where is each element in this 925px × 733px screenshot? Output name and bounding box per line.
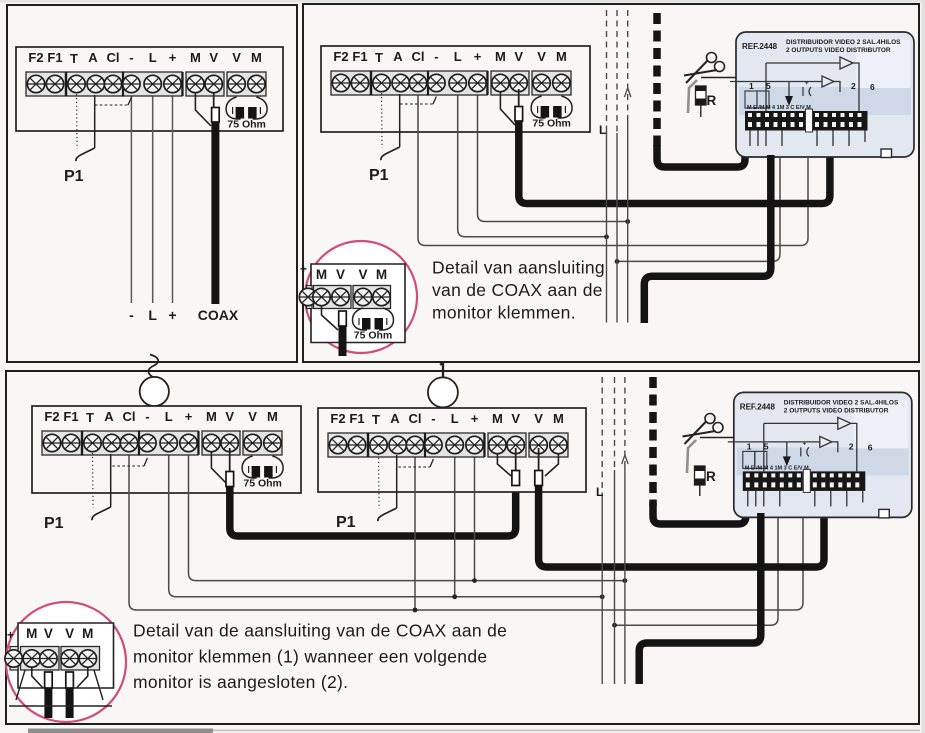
bottom section box: [6, 371, 919, 724]
coax connector M2: [515, 107, 523, 122]
dashed link M4: [398, 466, 430, 468]
svg-text:monitor is aangesloten (2).: monitor is aangesloten (2).: [133, 672, 348, 692]
detail 2 slanted legs: [16, 670, 103, 700]
detail circle 2 background: [6, 602, 126, 722]
wire M to coax shield M3: [211, 452, 226, 483]
junction dot riser2: [615, 259, 620, 264]
riser 2: [616, 10, 618, 133]
resistor 75 Ohm M3: [242, 456, 283, 490]
resistor R: [696, 86, 707, 105]
P1 switch M1: [76, 94, 95, 161]
svg-text:R: R: [706, 469, 716, 484]
detail 75 ohm: [353, 308, 394, 342]
detail group boxes: [307, 286, 313, 309]
resistor 75 Ohm M1: [226, 97, 267, 131]
cut coax riser (thick dashed): [653, 13, 661, 148]
arrow tick on riser 3: [625, 88, 631, 97]
svg-text:Detail van de aansluiting van: Detail van de aansluiting van de COAX aa…: [133, 621, 507, 641]
wire Cl M3 to distributor: [129, 443, 803, 610]
wire C1 to distributor: [418, 84, 808, 246]
wire Cl M4 down: [414, 445, 416, 610]
wire + M3 to riser: [189, 443, 625, 581]
monitor panel box M3: [32, 406, 301, 493]
wire M1 to coax1 shield M4: [497, 454, 511, 476]
junction dot L-riser1: [604, 234, 609, 239]
terminal strip M4: [328, 411, 568, 457]
wire from L terminal down: [152, 84, 154, 303]
coax cable down: [211, 122, 219, 304]
svg-text:+: +: [300, 262, 307, 276]
wire V into coax M2: [518, 89, 520, 106]
detail 2 coax cables down: [44, 688, 52, 718]
detail 2 M wire right: [77, 667, 88, 688]
junction dot +-riser3: [625, 219, 630, 224]
detail 2 M wire left: [32, 667, 43, 688]
detail circle 2 (bottom): [5, 602, 126, 722]
squiggle lead above circle 2: [148, 355, 158, 378]
junction dot + M4: [472, 578, 477, 583]
wire riser2 to distributor: [617, 158, 780, 261]
wire from distributor 2 being cut: [700, 437, 734, 439]
wire + M4 down: [474, 445, 476, 581]
wire L M3 to riser: [169, 443, 603, 597]
svg-text:P1: P1: [64, 168, 84, 185]
cut coax riser bottom (thick dashed): [649, 377, 657, 506]
junction dot +-riser3 bottom: [623, 578, 628, 583]
svg-text:+: +: [168, 307, 176, 323]
wire M2 to coax2 shield M4: [545, 454, 558, 476]
svg-text:V: V: [65, 626, 74, 641]
wire L to riser: [458, 84, 607, 237]
svg-text:M: M: [26, 626, 37, 641]
riser 1 bottom: [601, 377, 603, 497]
coax connector M4 first V: [512, 471, 520, 486]
svg-text:P1: P1: [369, 167, 389, 184]
riser 1: [606, 10, 608, 126]
junction dot Cl M4: [413, 608, 418, 613]
coax output 2 stub bottom: [639, 513, 761, 684]
svg-text:R: R: [707, 93, 717, 108]
svg-text:V: V: [336, 267, 345, 282]
wire from - terminal down: [130, 84, 132, 303]
coax output 2 stub: [644, 155, 771, 323]
top-right section box: [303, 4, 919, 362]
riser wires bottom (thin): [602, 377, 625, 684]
top-left section box: [7, 5, 297, 362]
lead above circle 1: [440, 363, 443, 378]
detail 2 base line: [9, 705, 112, 707]
svg-text:Detail van aansluiting: Detail van aansluiting: [432, 258, 605, 278]
P1 switch M4: [378, 454, 397, 521]
detail screws: [299, 288, 316, 305]
detail M wire: [322, 306, 339, 330]
riser wires (thin, dashed at top): [607, 10, 628, 323]
detail 2 group boxes: [10, 647, 18, 671]
svg-text:van de COAX aan de: van de COAX aan de: [432, 280, 603, 300]
junction dot L-riser1 bottom: [600, 594, 605, 599]
coax cable M3 up into M4 first V: [230, 486, 516, 536]
wire riser2 to distributor bottom: [615, 516, 779, 625]
detail 2 coax connector left: [45, 672, 53, 688]
wire from + terminal down: [172, 84, 174, 303]
wire V into coax M3: [229, 448, 231, 471]
cut cable end hanging down: [688, 80, 697, 113]
wire M to coax shield: [195, 93, 211, 126]
cut cable end hanging down bottom: [687, 440, 696, 473]
detail coax down: [339, 326, 347, 356]
detail box 2: [18, 623, 114, 688]
svg-text:M: M: [316, 267, 327, 282]
svg-text:L: L: [148, 307, 157, 323]
riser 2 bottom: [614, 377, 616, 470]
svg-text:P1: P1: [336, 514, 356, 531]
scissors bottom: [683, 414, 724, 445]
svg-text:M: M: [376, 267, 387, 282]
junction dot L M4: [452, 594, 457, 599]
detail circle 1 (top): [299, 241, 417, 356]
detail 2 screws: [5, 650, 22, 667]
coax cable M4 to distributor input: [539, 485, 824, 567]
detail 2 coax connector right: [66, 672, 74, 688]
P1 switch M3: [92, 453, 111, 520]
connector circle 2: [140, 377, 169, 406]
wire L M4 down: [454, 445, 456, 597]
riser 3 bottom: [624, 377, 626, 462]
detail box: [311, 264, 405, 343]
terminal strip M3: [42, 409, 282, 455]
coax connector M1: [212, 108, 220, 123]
monitor panel box M2: [321, 46, 590, 132]
distributor module U1: [730, 32, 914, 158]
resistor 75 Ohm M2: [531, 96, 572, 130]
svg-text:COAX: COAX: [198, 307, 239, 323]
junction dot riser2 bottom: [612, 623, 617, 628]
wire + to riser: [478, 84, 628, 222]
cut coax into distributor 2 input: [653, 503, 746, 524]
svg-text:P1: P1: [44, 515, 64, 532]
terminal strip M2: [331, 49, 571, 95]
monitor panel box M4: [318, 408, 586, 492]
wire V2 into coax M4: [538, 448, 540, 470]
dashed link M3: [112, 465, 144, 467]
monitor panel box M1: [16, 47, 283, 131]
coax cable M2 to distributor input: [519, 121, 830, 204]
svg-text:-: -: [129, 307, 134, 323]
P1 switch M2: [381, 93, 400, 160]
wire V into coax: [213, 92, 215, 108]
svg-text:monitor klemmen (1) wanneer ee: monitor klemmen (1) wanneer een volgende: [133, 647, 487, 667]
wire V1 into coax M4: [515, 448, 517, 470]
svg-text:+: +: [7, 628, 14, 642]
coax connector M3: [226, 472, 234, 487]
arrow tick on riser 3 bottom: [622, 455, 628, 464]
wire M to coax shield M2: [500, 92, 515, 125]
distributor module U2: [728, 392, 912, 518]
terminal strip M1: [26, 50, 266, 96]
svg-text:M: M: [82, 626, 93, 641]
scan edge shading: [0, 0, 925, 3]
svg-text:V: V: [44, 626, 53, 641]
riser 3: [627, 10, 629, 120]
svg-text:L: L: [599, 123, 606, 137]
detail coax connector: [339, 311, 347, 326]
connector circle 1: [428, 377, 458, 407]
coax connector M4 second V: [535, 471, 543, 486]
dashed link M2: [400, 103, 433, 105]
svg-text:L: L: [596, 485, 603, 499]
scissors: [684, 53, 725, 84]
wire from distributor being cut: [701, 77, 736, 79]
resistor R bottom: [695, 466, 706, 485]
svg-text:V: V: [358, 267, 367, 282]
detail circle background: [305, 241, 417, 353]
dashed link switch to - wire: [95, 104, 128, 106]
svg-text:monitor klemmen.: monitor klemmen.: [432, 303, 576, 323]
cut coax into distributor input 1: [657, 145, 745, 167]
